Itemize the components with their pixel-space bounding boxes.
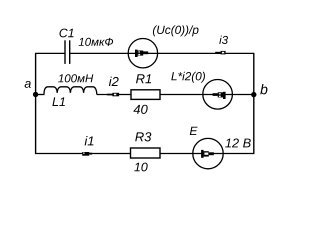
label (Uc(0))/p: [153, 25, 199, 36]
wire top segment from riser to C1: [35, 52, 65, 54]
label 12 В value of E: [225, 138, 251, 147]
label b of node b: [260, 84, 267, 94]
wire right vertical riser through node b: [253, 53, 255, 153]
node b: [251, 92, 256, 97]
wire C1 to source U1: [70, 52, 158, 54]
label 40 value of R1: [133, 105, 147, 114]
label 100мН value of L1: [58, 74, 93, 82]
current arrow i3: [215, 51, 225, 55]
label R3: [135, 132, 151, 141]
label i1: [85, 136, 94, 145]
current arrow i1: [82, 152, 92, 156]
wire E to bottom-right corner: [223, 153, 254, 155]
wire R1 to source U2: [160, 94, 233, 96]
wire U1 to top-right corner: [158, 52, 255, 54]
label 10 value of R3: [134, 163, 147, 172]
resistor R3: [131, 148, 161, 158]
label E: [190, 127, 198, 135]
wire bottom segment from riser to R3: [35, 153, 131, 155]
source U1 arrow: [135, 50, 148, 57]
inductor L1: [44, 87, 97, 95]
resistor R1: [131, 90, 160, 100]
capacitor C1: [65, 40, 70, 64]
source E circle: [193, 138, 223, 168]
wire L1 to R1: [97, 94, 131, 96]
current arrow i2: [107, 93, 119, 97]
wire U2 to node b: [232, 94, 253, 96]
source U1 circle (Uc(0))/p: [128, 39, 157, 68]
label 10мкФ value of C1: [79, 38, 114, 46]
label i2: [109, 77, 119, 86]
node a: [33, 92, 38, 97]
label L1: [52, 97, 64, 106]
label a of node a: [25, 81, 31, 88]
source U2 circle L*i2(0): [203, 80, 233, 110]
wire left vertical riser through node a: [35, 53, 37, 153]
label i3: [219, 36, 228, 44]
source U2 arrow: [213, 92, 226, 99]
label R1: [136, 74, 151, 83]
wire R3 to source E: [160, 153, 223, 155]
label L*i2(0): [171, 72, 205, 83]
wire a to L1: [36, 94, 45, 96]
source E arrow: [201, 150, 214, 158]
label C1: [59, 29, 73, 38]
